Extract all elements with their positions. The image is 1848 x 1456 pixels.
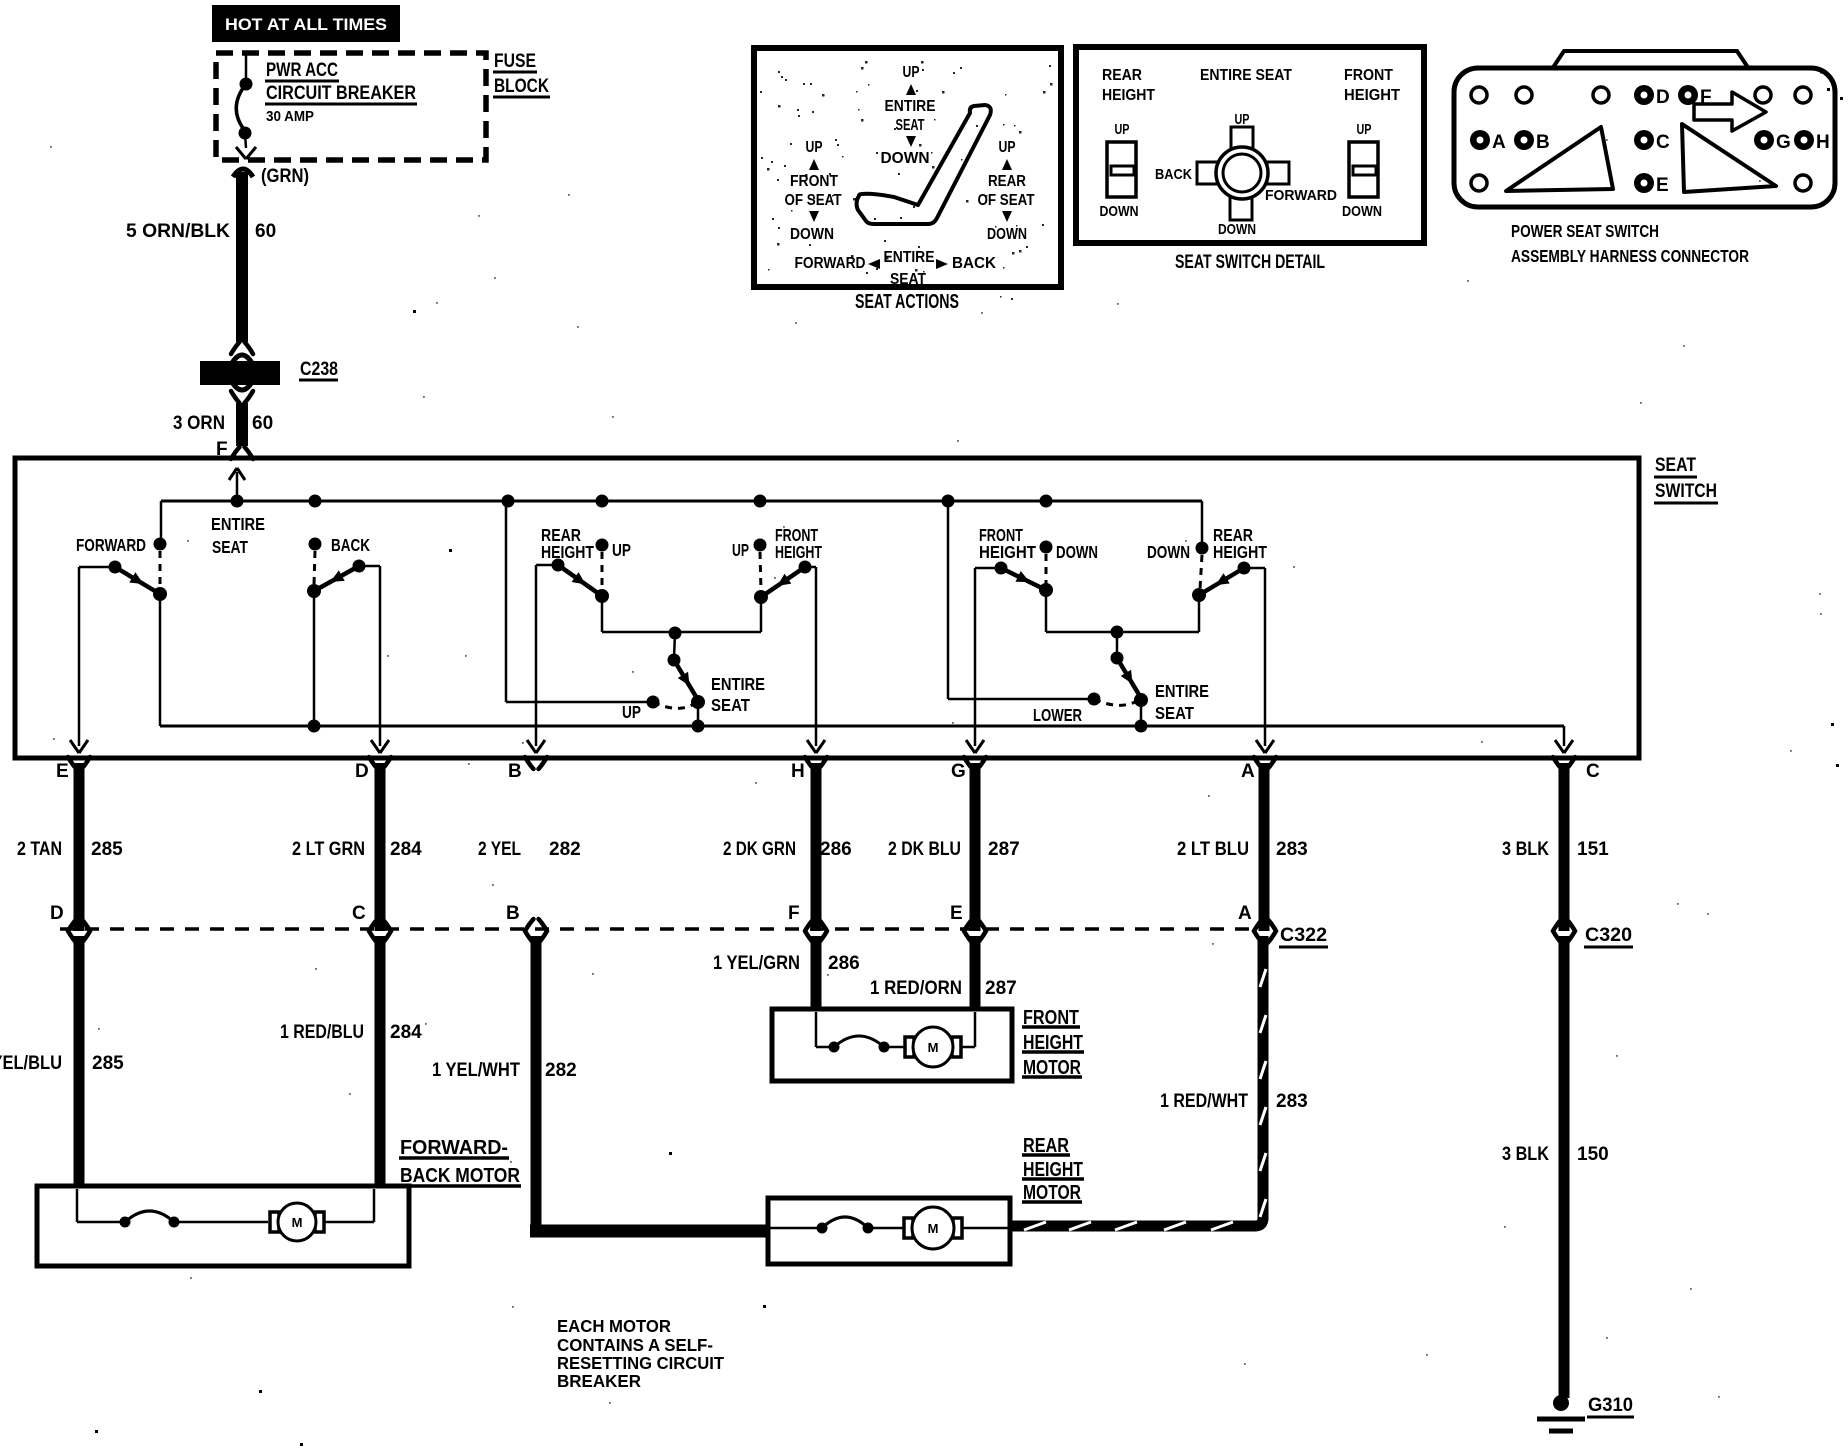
wire FORWARD contact to output E [79,566,115,569]
REAR HEIGHT UP fixed contact [596,539,609,552]
svg-text:1 YEL/WHT: 1 YEL/WHT [432,1060,520,1081]
scan noise sparse over page [609,1402,611,1404]
harness connector key triangle left [1506,127,1613,191]
svg-text:3 ORN: 3 ORN [173,413,225,434]
harness connector orientation arrow [1694,92,1766,131]
svg-text:DOWN: DOWN [1056,542,1098,562]
wire 2 TAN 285 from E [74,763,85,931]
svg-text:CONTAINS A SELF-: CONTAINS A SELF- [557,1335,713,1355]
lower bus node at entire-seat-up pivot [692,720,705,733]
ENTIRE SEAT up tilt blade [674,660,698,700]
svg-text:3 BLK: 3 BLK [1502,839,1549,860]
wire 3 BLK 151 from C [1559,763,1570,931]
wire FRONT HEIGHT DOWN contact to output G [975,567,1001,570]
REAR HEIGHT UP pivot [595,589,609,603]
BACK switch pivot [307,584,321,598]
svg-text:B: B [508,761,522,782]
FRONT HEIGHT DOWN pivot [1039,583,1053,597]
scan speckles [449,549,452,552]
FRONT HEIGHT UP fixed contact [754,539,767,552]
forward-back motor box [37,1186,409,1266]
svg-text:ENTIRE: ENTIRE [885,98,936,115]
svg-text:286: 286 [828,953,860,974]
front height motor circuit breaker [829,1042,840,1053]
ENTIRE SEAT lower tilt pivot [1134,693,1148,707]
REAR HEIGHT UP blade [558,565,602,596]
FRONT HEIGHT UP pivot [754,590,768,604]
internal supply bus wire [161,500,1202,503]
svg-text:LOWER: LOWER [1033,705,1082,725]
svg-text:OF SEAT: OF SEAT [978,192,1035,209]
svg-text:1 RED/BLU: 1 RED/BLU [280,1022,364,1043]
svg-text:M: M [928,1221,939,1236]
svg-text:DOWN: DOWN [1147,542,1190,562]
svg-text:282: 282 [549,839,581,860]
harness connector body [1454,68,1835,207]
svg-text:286: 286 [820,839,852,860]
svg-text:BACK: BACK [952,255,996,272]
svg-text:PWR ACC: PWR ACC [266,60,338,81]
bus junction nodes right half [502,495,515,508]
svg-text:ASSEMBLY HARNESS CONNECTOR: ASSEMBLY HARNESS CONNECTOR [1511,246,1749,266]
harness connector pin B [1514,130,1534,150]
svg-text:30 AMP: 30 AMP [266,108,314,125]
svg-text:BACK: BACK [1155,166,1192,183]
svg-text:1 RED/WHT: 1 RED/WHT [1160,1091,1248,1112]
svg-text:B: B [1536,132,1550,153]
svg-text:UP: UP [1235,111,1250,128]
ENTIRE SEAT up dashed link to UP contact [653,702,692,708]
svg-text:SEAT: SEAT [212,537,248,557]
wire 1 YEL/BLU 285 to forward-back motor [74,936,85,1186]
join bus node [669,627,682,640]
svg-text:ENTIRE: ENTIRE [884,249,935,266]
svg-text:DOWN: DOWN [881,150,930,167]
harness connector pin G [1754,130,1774,150]
svg-text:SWITCH: SWITCH [1655,480,1717,502]
lower bus node at BACK pivot [308,720,321,733]
svg-text:A: A [1492,132,1506,153]
svg-text:284: 284 [390,839,422,860]
seat actions inset box [754,48,1061,287]
svg-text:UP: UP [806,139,823,156]
svg-text:285: 285 [92,1053,124,1074]
ground G310 symbol [1553,1395,1569,1411]
svg-text:C320: C320 [1585,925,1632,946]
svg-text:HOT AT ALL TIMES: HOT AT ALL TIMES [225,16,387,34]
svg-text:UP: UP [1115,121,1130,138]
svg-text:DOWN: DOWN [1342,203,1382,220]
svg-text:282: 282 [545,1060,577,1081]
svg-text:SEAT: SEAT [1655,454,1696,476]
svg-text:UP: UP [1357,121,1372,138]
rear height motor M [904,1218,913,1238]
svg-text:SEAT: SEAT [890,271,926,288]
ENTIRE SEAT lower dashed link to LOWER contact [1094,699,1135,705]
svg-text:H: H [791,761,805,782]
svg-text:C: C [1586,761,1600,782]
bus junction node at F [231,495,244,508]
FORWARD switch blade [115,567,160,594]
BACK switch fixed contact [309,538,322,551]
svg-text:2 LT GRN: 2 LT GRN [292,839,365,860]
power feed label HOT AT ALL TIMES [212,5,400,42]
svg-text:DOWN: DOWN [987,226,1027,243]
svg-text:2 YEL: 2 YEL [478,839,521,860]
wire 1 RED/BLU 284 to forward-back motor [375,936,386,1186]
harness connector pin C [1634,130,1654,150]
svg-text:1 YEL/GRN: 1 YEL/GRN [713,953,800,974]
harness connector tab [1552,51,1749,69]
svg-text:BACK: BACK [331,535,370,555]
wire 2 LT GRN 284 from D [375,763,386,931]
REAR HEIGHT DOWN pivot [1192,588,1206,602]
REAR HEIGHT DOWN dashed actuator link [1200,555,1202,589]
rear height motor circuit breaker [817,1223,828,1234]
forward-back motor M [270,1212,279,1232]
harness connector pin D [1634,85,1654,105]
svg-text:FRONT: FRONT [1344,67,1393,84]
svg-text:C322: C322 [1280,925,1327,946]
wire 3 BLK 150 to ground [1559,936,1570,1398]
seat switch box [15,458,1639,758]
join bus node right [1111,626,1124,639]
svg-text:FRONT: FRONT [790,173,838,190]
FRONT HEIGHT UP blade [761,567,805,597]
svg-text:150: 150 [1577,1144,1609,1165]
svg-text:SEAT: SEAT [896,117,925,134]
fuse block dashed box [216,53,486,160]
svg-text:ENTIRE SEAT: ENTIRE SEAT [1200,67,1292,84]
svg-text:60: 60 [252,413,273,434]
wire 5 ORN/BLK 60 [236,172,248,342]
ENTIRE SEAT up tilt switch link [674,633,675,658]
svg-text:2 DK BLU: 2 DK BLU [888,839,961,860]
wire FRONT HEIGHT DOWN pivot to join bus [1045,590,1048,632]
svg-text:FORWARD: FORWARD [76,535,146,555]
svg-text:HEIGHT: HEIGHT [1102,87,1155,104]
wire UP contact back to supply bus [506,701,653,704]
svg-text:151: 151 [1577,839,1609,860]
lower internal bus wire [160,725,1564,728]
wire 2 DK GRN 286 from H [811,763,822,931]
svg-text:SEAT: SEAT [711,695,750,715]
svg-text:BACK MOTOR: BACK MOTOR [400,1165,520,1187]
BACK switch dashed actuator link [314,551,315,585]
svg-text:FUSE: FUSE [494,51,536,72]
svg-text:H: H [1816,132,1830,153]
svg-text:1 YEL/BLU: 1 YEL/BLU [0,1053,62,1074]
wire REAR HEIGHT UP pivot to join bus [601,596,604,632]
svg-text:HEIGHT: HEIGHT [775,542,822,562]
harness connector key triangle right [1682,124,1776,192]
wire BACK contact to output D [359,565,380,568]
REAR HEIGHT UP dashed actuator link [601,552,604,590]
svg-text:E: E [56,761,69,782]
harness connector pin E [1634,173,1654,193]
harness connector pin H [1794,130,1814,150]
scan noise texture in seat actions inset [856,91,858,93]
wire 1 RED/ORN 287 to front height motor [970,936,981,1010]
forward-back motor internal wiring [76,1189,79,1222]
ENTIRE SEAT lower tilt blade [1117,658,1141,698]
wire 1 YEL/GRN 286 to front height motor [811,936,822,1010]
FRONT HEIGHT UP dashed actuator link [760,552,761,591]
svg-text:SEAT ACTIONS: SEAT ACTIONS [855,291,959,313]
wire REAR HEIGHT DOWN pivot to join bus [1198,595,1201,632]
svg-text:FORWARD: FORWARD [795,255,866,272]
wire FRONT HEIGHT UP pivot to join bus [760,597,763,632]
FRONT HEIGHT DOWN blade [1001,568,1046,590]
svg-text:C: C [352,903,366,924]
svg-text:ENTIRE: ENTIRE [711,674,765,694]
svg-text:283: 283 [1276,1091,1308,1112]
svg-text:283: 283 [1276,839,1308,860]
front height motor internal wiring [815,1012,818,1047]
svg-text:2 TAN: 2 TAN [17,839,62,860]
svg-text:285: 285 [91,839,123,860]
svg-text:D: D [1656,87,1670,108]
svg-text:G: G [1776,132,1791,153]
bus junction node at BACK [309,495,322,508]
svg-text:2 LT BLU: 2 LT BLU [1177,839,1249,860]
FORWARD switch pivot [153,587,167,601]
svg-text:POWER SEAT SWITCH: POWER SEAT SWITCH [1511,221,1659,241]
rear height motor box [768,1198,1010,1264]
svg-text:287: 287 [988,839,1020,860]
rear height motor internal wiring [770,1227,822,1230]
svg-text:REAR: REAR [988,173,1026,190]
svg-text:ENTIRE: ENTIRE [1155,681,1209,701]
svg-text:5 ORN/BLK: 5 ORN/BLK [126,221,230,242]
forward-back motor circuit breaker [120,1217,131,1228]
wire 2 DK BLU 287 from G [970,763,981,931]
wire entire-seat-lower pivot to lower bus [1140,700,1143,726]
svg-text:D: D [355,761,369,782]
svg-text:HEIGHT: HEIGHT [979,542,1036,562]
svg-text:E: E [1656,175,1669,196]
wire 1 YEL/WHT 282 to rear height motor [531,936,542,1231]
REAR HEIGHT DOWN fixed contact [1196,542,1209,555]
pin F entry arrow inside seat switch [236,472,239,501]
seat switch detail inset box [1076,47,1424,243]
wire LOWER contact back to supply bus [948,698,1094,701]
svg-text:F: F [788,903,800,924]
svg-text:DOWN: DOWN [1218,221,1256,238]
REAR HEIGHT DOWN blade [1199,568,1244,595]
svg-text:HEIGHT: HEIGHT [1213,542,1267,562]
svg-text:G: G [951,761,966,782]
wire BACK pivot down to lower bus [313,591,316,726]
wire REAR HEIGHT DOWN contact to output A [1244,567,1265,570]
FRONT HEIGHT DOWN dashed actuator link [1045,554,1048,584]
svg-text:M: M [292,1215,303,1230]
svg-text:D: D [50,903,64,924]
svg-text:HEIGHT: HEIGHT [1344,87,1400,104]
svg-text:UP: UP [903,64,920,81]
svg-text:3 BLK: 3 BLK [1502,1144,1549,1165]
wire FORWARD pivot down to lower bus [159,594,162,726]
FORWARD switch fixed contact [154,538,167,551]
ENTIRE SEAT lower tilt switch link [1116,632,1119,656]
svg-text:ENTIRE: ENTIRE [211,514,265,534]
join bus between height-down pivots [1046,631,1199,634]
svg-text:UP: UP [622,702,641,722]
circuit breaker symbol [245,55,248,80]
svg-text:287: 287 [985,978,1017,999]
svg-text:REAR: REAR [1102,67,1142,84]
svg-text:A: A [1238,903,1252,924]
svg-text:HEIGHT: HEIGHT [541,542,594,562]
svg-text:FORWARD: FORWARD [1265,187,1337,204]
join bus between height-up pivots [602,631,761,634]
front height motor M [905,1037,914,1057]
svg-text:CIRCUIT BREAKER: CIRCUIT BREAKER [266,83,416,104]
LOWER contact for entire-seat-down [1088,693,1101,706]
svg-text:284: 284 [390,1022,422,1043]
svg-text:C: C [1656,132,1670,153]
lower bus node at entire-seat-lower pivot [1135,720,1148,733]
wire 2 LT BLU 283 from A [1259,763,1270,931]
svg-text:60: 60 [255,221,276,242]
svg-text:UP: UP [999,139,1016,156]
connector C320 inline terminals [1553,919,1562,931]
ENTIRE SEAT up tilt pivot [691,695,705,709]
terminal below fuse block [233,169,253,177]
harness connector index holes [1471,87,1487,103]
harness connector pin A [1470,130,1490,150]
arrow into fuse block bottom [236,147,246,159]
svg-text:M: M [928,1040,939,1055]
svg-text:A: A [1241,761,1255,782]
connector C238 [231,342,240,354]
wire entire-seat-up pivot to lower bus [697,702,700,726]
svg-text:(GRN): (GRN) [261,166,309,187]
svg-text:UP: UP [732,540,749,560]
svg-text:2 DK GRN: 2 DK GRN [723,839,796,860]
wire FRONT HEIGHT UP contact to output H [805,566,816,569]
wire 3 ORN 60 [236,403,248,446]
svg-text:UP: UP [612,540,631,560]
seat profile drawing [857,105,991,224]
BACK switch blade [314,566,359,591]
svg-text:E: E [950,903,963,924]
svg-text:BLOCK: BLOCK [494,76,549,97]
harness connector pin F [1678,85,1698,105]
svg-text:C238: C238 [300,359,338,380]
svg-text:OF SEAT: OF SEAT [785,192,842,209]
svg-text:SEAT SWITCH DETAIL: SEAT SWITCH DETAIL [1175,252,1325,273]
svg-text:B: B [506,903,520,924]
UP contact for entire-seat-up [647,696,660,709]
connector C322 dashed separation line [60,927,1255,931]
FRONT HEIGHT DOWN fixed contact [1040,541,1053,554]
front height motor box [772,1009,1012,1081]
svg-text:SEAT: SEAT [1155,703,1194,723]
svg-text:BREAKER: BREAKER [557,1371,641,1391]
svg-text:EACH MOTOR: EACH MOTOR [557,1316,671,1336]
FORWARD switch dashed actuator link [159,551,162,588]
svg-text:RESETTING CIRCUIT: RESETTING CIRCUIT [557,1353,724,1373]
svg-text:DOWN: DOWN [790,226,834,243]
svg-text:FORWARD-: FORWARD- [400,1137,508,1159]
svg-text:1 RED/ORN: 1 RED/ORN [870,978,962,999]
svg-text:DOWN: DOWN [1100,203,1139,220]
wire REAR HEIGHT UP contact to output B [536,564,558,567]
svg-text:G310: G310 [1588,1395,1633,1416]
